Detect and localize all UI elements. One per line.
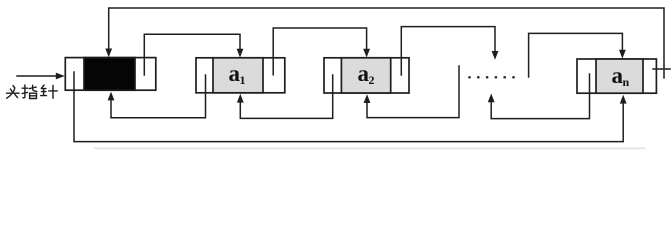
node head : black data cell: [84, 58, 135, 91]
value label an: [612, 63, 630, 89]
wire head.next -> a1: [144, 34, 240, 75]
node a2 : gray data cell: [341, 58, 390, 93]
label 头指针 (drawn glyphs): [7, 85, 58, 99]
wire a2.next -> dots: [401, 27, 495, 75]
node an : gray data cell: [596, 59, 643, 93]
wire a1.prior -> head: [111, 75, 206, 118]
svg-text:1: 1: [240, 73, 246, 87]
wire a1.next -> a2: [273, 28, 366, 75]
ellipsis dots between a2 and an: [468, 76, 514, 78]
head pointer arrow: [17, 73, 65, 80]
node a1 : box: [196, 58, 285, 93]
svg-text:n: n: [623, 75, 630, 89]
char 针: [41, 85, 58, 98]
wire an.next -> head (top circular loop): [109, 8, 670, 78]
svg-text:2: 2: [369, 73, 375, 87]
wire a2.prior -> a1: [240, 75, 332, 118]
faint scan streak at bottom: [95, 147, 645, 149]
value label a1: [229, 61, 246, 87]
wire head.prior -> an (bottom circular loop): [74, 72, 623, 142]
wire dots.next -> an: [529, 33, 623, 77]
wire an.prior -> dots: [491, 74, 589, 119]
node a1 : gray data cell: [213, 58, 263, 93]
node head : box: [65, 58, 156, 91]
wire dots.prior -> a2: [367, 66, 459, 118]
value label a2: [358, 61, 375, 87]
char 头: [7, 86, 20, 99]
node an : box: [577, 59, 656, 93]
char 指: [22, 85, 37, 99]
node a2 : box: [324, 58, 409, 93]
